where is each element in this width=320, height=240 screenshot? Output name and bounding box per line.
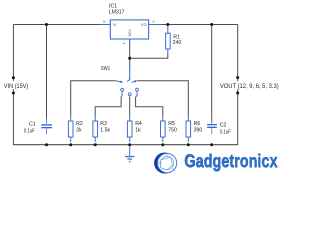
pin 3 stub (VI) (101, 24, 110, 26)
svg-text:1k: 1k (135, 128, 141, 134)
svg-text:R5: R5 (168, 121, 175, 127)
svg-text:R4: R4 (135, 121, 142, 127)
wire SW1 left throw to R2 (71, 81, 115, 117)
node VOUT terminal (221, 81, 282, 89)
svg-text:Gadgetronicx: Gadgetronicx (184, 150, 278, 171)
resistor R5 (161, 121, 166, 137)
wire contact3 to R5 (136, 97, 163, 117)
svg-text:1.5k: 1.5k (100, 128, 110, 134)
svg-text:VO: VO (141, 22, 147, 27)
svg-text:LM317: LM317 (109, 10, 125, 16)
svg-text:SW1: SW1 (101, 66, 111, 72)
wire SW1 right throw to R6 (137, 81, 188, 117)
resistor R4 (127, 121, 132, 137)
wire SW1 common from ADJ node (129, 58, 131, 67)
wire R1 bottom to ADJ node (130, 53, 168, 58)
junction dots bottom rail (45, 143, 48, 146)
switch SW1 contact 1 (121, 88, 124, 91)
resistor R6 (186, 121, 191, 137)
svg-text:0.1uF: 0.1uF (220, 129, 231, 135)
wire bottom ground rail (13, 144, 237, 146)
svg-text:R3: R3 (100, 121, 107, 127)
wire right rail VOUT (237, 25, 239, 146)
switch SW1 contact 2 (128, 93, 131, 96)
resistor R3 (93, 121, 98, 137)
svg-text:3: 3 (103, 19, 106, 24)
node VIN terminal (3, 81, 30, 89)
wire contact1 to R3 (95, 97, 121, 117)
capacitor C2 (211, 119, 213, 135)
ground (129, 145, 131, 156)
wire C2 feed from VOUT rail (211, 25, 213, 123)
svg-text:C1: C1 (29, 122, 36, 128)
switch SW1 contact 3 (136, 88, 139, 91)
svg-text:1: 1 (121, 42, 126, 45)
svg-text:VI: VI (113, 22, 117, 27)
switch SW1 pole (127, 66, 130, 81)
wire left rail VIN (12, 25, 14, 146)
svg-text:2: 2 (152, 19, 155, 24)
resistor R1 (167, 25, 169, 54)
pin 2 stub (VO) (149, 24, 161, 26)
wire top rail VIN to IC pin3 (13, 24, 101, 26)
junction dots top rail (45, 23, 48, 26)
svg-text:R2: R2 (76, 121, 83, 127)
wire ADJ pin down (129, 39, 131, 58)
svg-text:0.1uF: 0.1uF (24, 128, 35, 134)
svg-text:VIN (15V): VIN (15V) (4, 84, 28, 90)
junction dot ADJ node (128, 57, 131, 60)
wire contact2 to R4 (129, 97, 131, 117)
switch SW1 right wiper arrow (132, 81, 135, 82)
wire top rail VO to right (161, 24, 238, 26)
wire C1 feed from top rail (46, 25, 48, 123)
svg-text:C2: C2 (220, 123, 227, 129)
svg-text:IC1: IC1 (109, 3, 117, 9)
svg-text:VOUT (12, 9, 6, 5, 3.3): VOUT (12, 9, 6, 5, 3.3) (220, 84, 279, 90)
pin 1 stub (ADJ) (129, 39, 131, 45)
svg-text:R6: R6 (194, 121, 201, 127)
IC IC1 LM317 regulator body (110, 20, 148, 39)
resistor R2 (68, 121, 73, 137)
svg-text:390: 390 (194, 128, 203, 134)
switch SW1 left wiper arrow (115, 81, 121, 82)
capacitor C1 (46, 119, 48, 135)
svg-text:ADJ: ADJ (128, 29, 132, 36)
svg-text:2k: 2k (76, 128, 82, 134)
svg-text:750: 750 (168, 128, 177, 134)
svg-text:240: 240 (173, 40, 182, 46)
Gadgetronicx logo icon (154, 153, 177, 174)
